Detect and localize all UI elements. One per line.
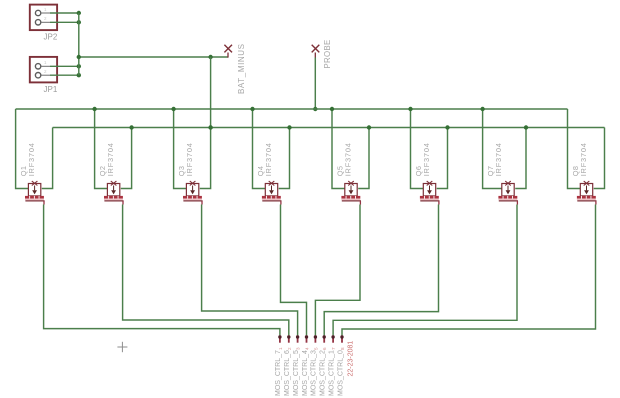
svg-text:IRF3704: IRF3704 — [343, 142, 352, 176]
junction Q6 gate at top bus — [408, 107, 412, 111]
svg-text:5: 5 — [313, 347, 318, 350]
wire drain drop Q5 — [358, 128, 369, 189]
transistor Q2 IRF3704 — [104, 181, 124, 204]
junction at JP2 pin 1 — [77, 11, 81, 15]
wire Q4 source to pin 4 — [281, 205, 307, 336]
wire drain drop Q2 — [121, 128, 132, 189]
transistor Q6 IRF3704 — [420, 181, 440, 204]
pin 5 of bottom header — [314, 335, 317, 342]
svg-text:JP2: JP2 — [44, 32, 58, 41]
pin 4 of bottom header — [305, 335, 308, 342]
svg-text:PROBE: PROBE — [323, 39, 332, 68]
junction Q4 drain at bus 2 — [287, 125, 291, 129]
svg-text:MOS_CTRL_6: MOS_CTRL_6 — [284, 350, 291, 396]
wire top bus (PROBE net) — [16, 108, 568, 110]
wire drain drop Q7 — [515, 128, 526, 189]
pin 2 of bottom header — [287, 335, 290, 342]
transistor Q1 IRF3704 — [25, 181, 45, 204]
wire Q3 source to pin 3 — [202, 205, 298, 336]
connector JP1 — [30, 57, 57, 83]
svg-text:MOS_CTRL_7: MOS_CTRL_7 — [275, 350, 282, 396]
junction Q5 gate at top bus — [330, 107, 334, 111]
connector JP2 — [30, 5, 57, 31]
pin 1 of bottom header — [278, 335, 281, 342]
junction Q6 drain at bus 2 — [445, 125, 449, 129]
svg-text:IRF3704: IRF3704 — [579, 142, 588, 176]
junction at JP2 pin 2 — [77, 20, 81, 24]
junction Q7 drain at bus 2 — [524, 125, 528, 129]
junction Q2 gate at top bus — [92, 107, 96, 111]
pin 3 of bottom header — [296, 335, 299, 342]
pin 6 of bottom header — [323, 335, 326, 342]
wire drain drop Q3 — [200, 128, 211, 189]
junction at JP1 pin 2 — [77, 73, 81, 77]
wire drain drop Q1 — [42, 128, 53, 189]
wire JP2 pin 1 to vertical — [50, 12, 79, 14]
wire second bus (BAT_MINUS net) — [53, 127, 605, 129]
junction BAT_MINUS at bus 2 — [208, 125, 212, 129]
svg-text:6: 6 — [322, 347, 327, 350]
wire drain drop Q4 — [279, 128, 290, 189]
wire Q8 source to pin 8 — [342, 205, 596, 336]
wire JP1 pin 1 to vertical — [50, 65, 79, 67]
wire drain drop Q6 — [437, 128, 448, 189]
wire horizontal to BAT_MINUS — [79, 56, 228, 58]
svg-text:IRF3704: IRF3704 — [106, 142, 115, 176]
svg-text:7: 7 — [331, 347, 336, 350]
svg-text:4: 4 — [305, 347, 310, 350]
wire gate drop Q5 — [332, 109, 345, 189]
svg-text:2: 2 — [44, 69, 47, 74]
wire Q2 source to pin 2 — [123, 205, 289, 336]
junction Q7 gate at top bus — [480, 107, 484, 111]
svg-text:MOS_CTRL_0: MOS_CTRL_0 — [337, 350, 344, 396]
junction BAT_MINUS drop — [208, 55, 212, 59]
origin cross — [117, 342, 127, 352]
wire gate drop Q7 — [483, 109, 502, 189]
svg-text:MOS_CTRL_5: MOS_CTRL_5 — [293, 350, 300, 396]
svg-text:2: 2 — [44, 16, 47, 21]
transistor Q8 IRF3704 — [577, 181, 597, 204]
junction JP bus / BAT_MINUS wire — [77, 55, 81, 59]
svg-text:BAT_MINUS: BAT_MINUS — [237, 43, 246, 94]
svg-text:MOS_CTRL_1: MOS_CTRL_1 — [328, 350, 335, 396]
wire Q6 source to pin 6 — [324, 205, 438, 336]
transistor Q7 IRF3704 — [498, 181, 518, 204]
wire BAT_MINUS drop to bus 2 — [210, 57, 212, 128]
wire gate drop Q6 — [411, 109, 424, 189]
svg-text:JP1: JP1 — [44, 85, 58, 94]
svg-text:IRF3704: IRF3704 — [27, 142, 36, 176]
junction at JP1 pin 1 — [77, 64, 81, 68]
pin 8 of bottom header — [340, 335, 343, 342]
svg-text:IRF3704: IRF3704 — [185, 142, 194, 176]
svg-text:1: 1 — [278, 347, 283, 350]
junction Q4 gate at top bus — [250, 107, 254, 111]
wire gate drop Q8 — [568, 109, 581, 189]
wire Q7 source to pin 7 — [333, 205, 517, 336]
svg-text:22-23-2081: 22-23-2081 — [348, 341, 355, 377]
junction Q5 drain at bus 2 — [367, 125, 371, 129]
svg-text:IRF3704: IRF3704 — [422, 142, 431, 176]
junction Q3 drain at bus 2 — [208, 125, 212, 129]
svg-text:IRF3704: IRF3704 — [264, 142, 273, 176]
svg-text:3: 3 — [296, 347, 301, 350]
svg-text:8: 8 — [340, 347, 345, 350]
wire gate drop Q4 — [253, 109, 266, 189]
wire gate drop Q2 — [95, 109, 108, 189]
wire drain drop Q8 — [594, 128, 605, 189]
svg-text:1: 1 — [44, 7, 47, 12]
junction PROBE at top bus — [313, 107, 317, 111]
wire vertical JP bus — [78, 13, 80, 75]
svg-text:MOS_CTRL_4: MOS_CTRL_4 — [302, 350, 309, 396]
wire gate drop Q1 — [16, 109, 29, 189]
wire JP1 pin 2 to vertical — [50, 74, 79, 76]
junction Q2 drain at bus 2 — [129, 125, 133, 129]
pin 7 of bottom header — [331, 335, 334, 342]
wire JP2 pin 2 to vertical — [50, 21, 79, 23]
svg-text:MOS_CTRL_2: MOS_CTRL_2 — [320, 350, 327, 396]
wire Q5 source to pin 5 — [315, 205, 360, 336]
wire gate drop Q3 — [174, 109, 187, 189]
transistor Q5 IRF3704 — [341, 181, 361, 204]
transistor Q3 IRF3704 — [183, 181, 203, 204]
svg-text:1: 1 — [44, 60, 47, 65]
transistor Q4 IRF3704 — [262, 181, 282, 204]
wire PROBE to top bus — [314, 58, 316, 110]
net flag BAT_MINUS (X symbol) — [224, 45, 232, 58]
svg-text:2: 2 — [287, 347, 292, 350]
svg-text:MOS_CTRL_3: MOS_CTRL_3 — [311, 350, 318, 396]
net flag PROBE (X symbol) — [312, 45, 320, 58]
wire Q1 source to pin 1 — [44, 205, 280, 336]
junction Q3 gate at top bus — [171, 107, 175, 111]
svg-text:IRF3704: IRF3704 — [494, 142, 503, 176]
